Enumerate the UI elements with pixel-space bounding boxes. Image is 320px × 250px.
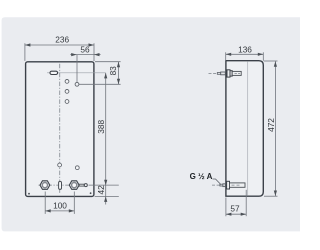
fittings centerline dash-dot xyxy=(39,184,81,186)
dim 236 xyxy=(25,35,94,62)
small hole 1 xyxy=(65,80,69,84)
svg-text:388: 388 xyxy=(96,119,106,133)
svg-text:236: 236 xyxy=(55,35,69,45)
dim 83 xyxy=(95,62,121,85)
hex fitting right G1/2 xyxy=(69,181,79,189)
svg-text:42: 42 xyxy=(96,185,106,195)
seam line xyxy=(247,61,249,195)
hole 56/83 xyxy=(75,82,79,86)
screw dot bottom-right xyxy=(90,192,92,194)
svg-text:136: 136 xyxy=(238,44,252,54)
svg-text:57: 57 xyxy=(230,203,240,213)
side body outline xyxy=(226,61,263,197)
svg-text:G ½ A: G ½ A xyxy=(190,172,213,181)
bottom fitting inner dashes xyxy=(232,184,242,186)
dim 100 xyxy=(45,192,74,214)
mounting slot xyxy=(50,71,58,74)
top fitting dashes xyxy=(209,72,220,74)
dim 472 xyxy=(264,61,278,196)
svg-text:56: 56 xyxy=(80,44,90,54)
bottom fitting dashes xyxy=(212,184,220,186)
top fitting stub small xyxy=(217,73,220,75)
leader line xyxy=(213,179,222,185)
bottom fitting flange xyxy=(227,181,230,189)
ball end of stub xyxy=(84,184,87,187)
hole crosshair horizontal xyxy=(77,83,121,85)
fittings centerline extension solid xyxy=(89,184,119,186)
svg-text:83: 83 xyxy=(108,66,118,76)
svg-text:100: 100 xyxy=(53,201,67,211)
small hole 3 xyxy=(65,100,69,104)
lower circle on centerline xyxy=(58,163,62,167)
hole crosshair vertical xyxy=(76,55,78,85)
hex fitting left G1/2 xyxy=(40,181,50,189)
top fitting flange2 xyxy=(230,71,232,76)
dim 42 xyxy=(95,185,119,205)
top fitting stub large xyxy=(221,72,226,75)
top fitting flange xyxy=(227,70,230,77)
gray drawing panel xyxy=(2,17,300,231)
small hole 2 xyxy=(65,90,69,94)
dim 388 xyxy=(96,73,108,185)
front body outline xyxy=(26,62,94,197)
lower circle right xyxy=(75,166,79,170)
top fitting cylinder xyxy=(232,71,241,75)
bracket seam line xyxy=(47,72,106,74)
stub on right fitting xyxy=(79,184,84,186)
bottom fitting stub small xyxy=(220,184,223,186)
vertical centerline xyxy=(59,64,61,195)
bottom fitting cylinder xyxy=(230,183,246,187)
dim 56 xyxy=(70,44,100,56)
svg-text:472: 472 xyxy=(266,118,276,132)
bottom fitting stub large xyxy=(223,184,225,187)
top fitting inner dash xyxy=(235,72,241,74)
dim 57 xyxy=(226,190,246,216)
middle slot between fittings xyxy=(59,181,62,189)
dim 136 xyxy=(226,44,264,60)
screw dot bottom-left xyxy=(28,193,30,195)
